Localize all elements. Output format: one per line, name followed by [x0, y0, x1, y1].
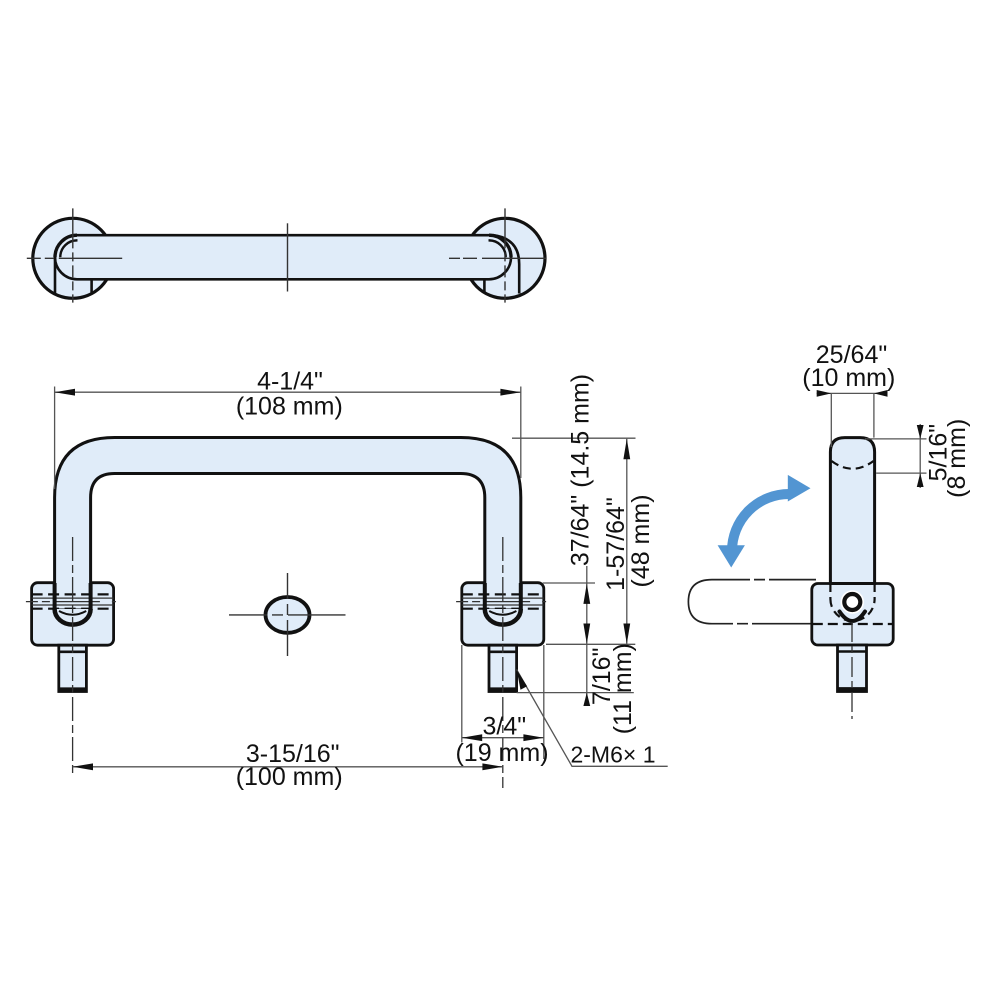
ext line stud bottom right — [517, 692, 634, 694]
left stud shoulder line — [59, 650, 87, 653]
middle centerline vertical (top view) — [287, 223, 289, 291]
svg-text:3/4": 3/4" — [482, 713, 526, 741]
right block hidden slot dashed line upper — [462, 593, 544, 595]
svg-text:(100 mm): (100 mm) — [236, 763, 343, 791]
dim 4-1/4 extension line right — [520, 387, 522, 479]
grip tube hidden lower arc (side view) — [832, 461, 874, 469]
left leg inner edge line (top view) — [90, 279, 93, 293]
right pivot axis centerline — [456, 601, 550, 603]
dim 25/64 dimension line — [817, 392, 888, 394]
left leg bold edges in block — [55, 583, 91, 610]
ext line block bottom right — [546, 643, 635, 645]
dim 3/4 left arrowhead — [462, 734, 482, 741]
hidden leg edges in block dashed (side view) — [830, 584, 874, 599]
left pivot axis centerline — [26, 601, 120, 603]
dim 25/64 right arrowhead — [874, 390, 888, 397]
center hole vertical centerline — [287, 573, 289, 656]
right leg bottom bold semicircle — [485, 609, 521, 625]
svg-text:37/64" (14.5 mm): 37/64" (14.5 mm) — [567, 374, 595, 566]
right block slot thin line upper — [462, 597, 544, 599]
right centerline horizontal (top view) — [449, 257, 546, 259]
threaded stud (side view) — [838, 645, 867, 692]
left centerline vertical (top view) — [72, 208, 74, 302]
dim 3-15/16 right arrowhead — [482, 763, 502, 770]
right mounting block (front view) — [462, 583, 544, 646]
center hole horizontal centerline — [229, 614, 346, 616]
dim 5/16 top arrowhead — [917, 425, 924, 439]
left leg outer edge line (top view) — [54, 257, 57, 294]
dim 1-57/64 top arrowhead — [623, 439, 630, 459]
folded handle phantom bottom edge (side view) — [712, 623, 816, 625]
left block slot thin line lower — [32, 604, 114, 606]
right centerline vertical (top view) — [504, 208, 506, 302]
left bend bold corner arc (top view) — [55, 235, 77, 257]
dim 5/16 extension line top — [865, 438, 927, 440]
hidden slot bottom dashed line (side view) — [813, 623, 893, 625]
rotation arrow right head — [788, 475, 811, 502]
dim 4-1/4 dimension line — [55, 391, 521, 393]
left leg end smile arc — [59, 611, 86, 615]
dim 4-1/4 left arrowhead — [55, 389, 75, 396]
grip bar (top view stadium) — [55, 235, 511, 279]
ext line handle top right — [512, 437, 636, 439]
hidden leg end semicircle dashed (side view) — [830, 599, 874, 621]
left centerline horizontal (top view) — [27, 257, 122, 259]
pivot under bold arc (side view) — [840, 612, 866, 622]
right bend inner arc (top view) — [489, 240, 506, 257]
folded handle phantom end cap arc (side view) — [688, 580, 712, 624]
svg-text:(8 mm): (8 mm) — [943, 419, 971, 498]
mounting block (side view) — [812, 584, 893, 646]
dim 7/16 bottom arrowhead — [583, 693, 590, 706]
dim 4-1/4 right arrowhead — [500, 389, 520, 396]
ext line block top right — [543, 582, 595, 584]
svg-text:2-M6× 1: 2-M6× 1 — [570, 742, 655, 768]
dim 3-15/16 left arrowhead — [73, 763, 93, 770]
right leg outer edge with bend arc (top view) — [493, 235, 519, 293]
svg-text:(10 mm): (10 mm) — [802, 364, 895, 392]
right mount base circle (top view) — [465, 218, 545, 298]
dim 7/16 dimension line — [586, 644, 588, 706]
right leg bold edges in block — [485, 583, 521, 610]
upright leg (side view) — [830, 438, 874, 584]
dim 1-57/64 dimension line — [626, 439, 628, 644]
svg-text:(108 mm): (108 mm) — [236, 393, 343, 421]
dim 1-57/64 bottom arrowhead — [623, 624, 630, 644]
dim 25/64 left arrowhead — [817, 390, 832, 397]
dim 37/64 bottom arrowhead — [583, 624, 590, 644]
dim 5/16 bottom arrowhead — [917, 473, 924, 487]
dim 5/16 dimension line — [919, 424, 921, 488]
dim 37/64 top arrowhead — [583, 584, 590, 604]
left block hidden slot dashed line upper — [32, 593, 114, 595]
left mounting block (front view) — [32, 583, 114, 646]
svg-text:(48 mm): (48 mm) — [627, 494, 655, 587]
stud vertical centerline (side view) — [851, 622, 853, 719]
right leg end smile arc — [489, 611, 516, 615]
dim 3-15/16 dimension line — [73, 766, 503, 768]
U-shaped handle body (front view) — [55, 438, 521, 611]
left threaded stud — [59, 645, 87, 691]
pivot pin white casing (side view) — [844, 594, 860, 610]
right block hidden slot dashed line lower — [462, 608, 544, 610]
left block hidden slot dashed line lower — [32, 608, 114, 610]
left mount base circle (top view) — [33, 218, 113, 298]
left leg bottom bold semicircle — [55, 609, 91, 625]
stud chamfer bold tip (side view) — [838, 687, 865, 692]
dim 3/4 right arrowhead — [523, 734, 543, 741]
right bend bold corner arc (top view) — [489, 235, 511, 257]
leader line 2-M6x1 — [517, 670, 668, 767]
dim 25/64 extension line right — [873, 393, 875, 437]
leader arrowhead 2-M6x1 — [517, 670, 528, 690]
left leg vertical centerline — [72, 537, 74, 776]
svg-text:(19 mm): (19 mm) — [455, 739, 548, 767]
right leg inner edge line (top view) — [483, 279, 486, 293]
rotation arrow blue arc — [732, 494, 789, 551]
folded handle phantom top edge (side view) — [712, 579, 816, 581]
center mounting hole ellipse — [266, 597, 310, 633]
right threaded stud — [489, 645, 517, 691]
dim 5/16 extension line bottom — [876, 472, 926, 474]
left stud chamfer bold tip — [60, 687, 86, 692]
left bend inner arc (top view) — [60, 240, 77, 257]
dim 37/64 dimension line — [586, 566, 588, 644]
pivot pin ring (side view) — [844, 594, 860, 610]
right stud chamfer bold tip — [490, 687, 516, 692]
right block slot thin line lower — [462, 604, 544, 606]
svg-text:4-1/4": 4-1/4" — [257, 368, 323, 396]
right leg vertical centerline — [502, 537, 504, 788]
left block slot thin line upper — [32, 597, 114, 599]
dim 3/4 extension line left — [461, 645, 463, 743]
svg-text:(11 mm): (11 mm) — [609, 643, 637, 734]
dim 4-1/4 extension line left — [54, 387, 56, 490]
rotation arrow down head — [718, 545, 745, 567]
right stud shoulder line — [489, 650, 517, 653]
dim 25/64 extension line left — [830, 393, 832, 447]
stud shoulder line (side view) — [838, 650, 867, 653]
dim 3/4 extension line right — [543, 645, 545, 759]
svg-text:1-57/64": 1-57/64" — [602, 497, 630, 591]
dim 3/4 dimension line — [462, 737, 544, 739]
